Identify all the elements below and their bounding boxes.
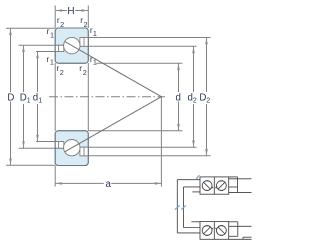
svg-text:d: d	[176, 93, 181, 104]
svg-text:2: 2	[60, 68, 64, 77]
svg-text:1: 1	[50, 58, 54, 67]
svg-text:1: 1	[93, 29, 97, 38]
svg-text:1: 1	[93, 58, 97, 67]
svg-text:2: 2	[60, 20, 64, 29]
svg-text:H: H	[67, 6, 74, 17]
svg-text:2: 2	[84, 20, 88, 29]
svg-text:D: D	[7, 93, 14, 104]
svg-text:1: 1	[50, 30, 54, 39]
svg-text:a: a	[106, 179, 112, 190]
svg-text:2: 2	[83, 68, 87, 77]
